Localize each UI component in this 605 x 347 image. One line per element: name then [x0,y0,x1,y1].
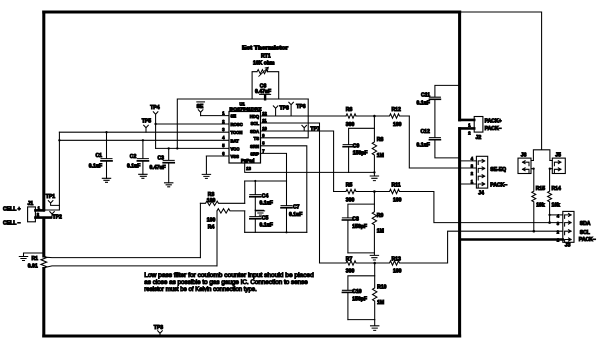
svg-text:C4: C4 [262,194,269,200]
wire pull-up feed top right [460,12,550,161]
ground SCL filter [371,320,379,331]
connector J1 [28,207,36,222]
wire PACK- thick right border lower [458,129,461,336]
svg-text:C9: C9 [353,143,360,149]
svg-text:1M: 1M [377,228,384,234]
svg-text:100: 100 [393,122,402,128]
svg-text:J6: J6 [521,152,527,158]
svg-text:as close as possible to gas ga: as close as possible to gas gauge IC. Co… [144,280,308,286]
svg-text:R7: R7 [346,257,353,263]
svg-text:C10: C10 [352,289,362,295]
capacitor C4 [250,181,261,210]
svg-text:C1: C1 [96,153,103,159]
connector J3 [563,211,574,242]
svg-text:SE-EQ: SE-EQ [490,167,506,173]
svg-text:R3: R3 [208,192,215,198]
ground below C2 [139,174,147,178]
svg-text:C2: C2 [130,154,137,160]
svg-text:J5: J5 [555,152,561,158]
svg-text:BAT: BAT [231,138,240,143]
node R14 on SDA [548,221,551,224]
capacitor C12 [429,138,459,158]
pin 1 SE [201,115,229,117]
svg-text:10k: 10k [552,202,561,208]
pin 2 ROSC [156,123,229,125]
svg-text:11: 11 [262,118,267,123]
resistor R10 [373,276,377,320]
svg-text:CELL +: CELL + [3,207,21,213]
thermistor RT1 [252,72,279,99]
resistor R13 [375,261,410,265]
node R15 on SCL [533,230,536,233]
op-amp U1 gas gauge IC [229,112,261,164]
svg-text:R10: R10 [377,284,387,290]
wire SRP pin 7 down to filter box [261,153,287,181]
ground below C3 [165,183,173,187]
svg-text:Low pass filter for coulomb co: Low pass filter for coulomb counter inpu… [144,273,313,279]
svg-text:J4: J4 [478,191,484,197]
node box corners [254,180,256,182]
wire kelvin riser R4 [216,211,218,266]
svg-text:10k: 10k [536,202,545,208]
capacitor C11 [429,85,459,137]
svg-text:HDQ: HDQ [250,114,260,119]
svg-text:PACK+: PACK+ [485,119,502,125]
svg-text:12: 12 [262,111,267,116]
svg-text:R9: R9 [377,213,384,219]
svg-text:TP5: TP5 [142,118,152,124]
svg-text:300: 300 [346,198,355,204]
wire J1 pin1 stub [35,209,43,212]
svg-text:300: 300 [346,268,355,274]
svg-text:resistor must be of Kelvin con: resistor must be of Kelvin connection ty… [144,287,257,293]
svg-text:R11: R11 [392,183,401,189]
svg-text:SCL: SCL [251,121,260,126]
wire CELL+ thick left border [42,12,45,210]
svg-text:R1: R1 [32,256,39,262]
wire CELL- thick left lower [42,218,45,256]
wire HDQ to J4 pin3 [409,116,476,168]
svg-text:300: 300 [346,122,355,128]
svg-text:SRP: SRP [250,152,259,157]
ground HDQ filter [370,172,378,180]
svg-text:0.1uF: 0.1uF [89,164,102,170]
node J6 pin2 [532,168,534,170]
wire SDA out to J3 [409,192,563,223]
ground U1 VSS [202,156,210,178]
wire J1 pin2 stub [35,216,51,219]
wire SCL filter bottom rail [348,319,375,321]
wire J2 pin1 stub PACK+ [460,119,475,122]
svg-text:R12: R12 [392,107,402,113]
svg-text:R5: R5 [346,183,353,189]
wire box left SRP leg [244,181,246,203]
svg-text:CELL −: CELL − [3,221,21,227]
svg-text:SDA: SDA [580,221,591,227]
pin 13 pad wire [245,163,349,172]
svg-text:SE: SE [231,114,237,119]
wire BAT sense riser from J1 [44,132,60,210]
svg-text:R13: R13 [392,257,402,263]
pin 5 VCC [156,147,229,149]
ground SDA filter [370,253,378,260]
node C2/p4 [142,139,144,141]
svg-text:R8: R8 [377,137,384,143]
connector J6 [518,158,531,173]
node C1/p3 [105,131,107,133]
svg-text:0.1uF: 0.1uF [127,163,140,169]
node thermnet/p5 [176,147,178,149]
svg-text:0.1uF: 0.1uF [289,212,302,218]
wire SCL pin 11 down to row3 [261,123,320,263]
node TP4/pin2 [154,123,156,125]
capacitor C2 [137,140,148,174]
svg-text:TS: TS [254,136,260,141]
wire J6 pins to rail [531,161,534,169]
capacitor C5 [250,210,261,232]
wire TS pin 9 to thermistor net [261,99,309,138]
svg-text:SRN: SRN [250,144,259,149]
svg-text:TP2: TP2 [53,214,63,220]
testpoint TP7 [302,125,307,131]
svg-text:SCL: SCL [580,230,590,236]
wire kelvin tap lower [45,266,217,268]
capacitor C8 [342,192,374,253]
wire J4 pin4 from border [460,160,477,162]
capacitor C7 [281,181,292,232]
svg-text:150pF: 150pF [352,224,367,230]
svg-text:TP6: TP6 [296,104,306,110]
svg-text:100: 100 [207,218,216,224]
svg-text:100: 100 [393,268,402,274]
ground mid filter [255,210,264,215]
resistor R6 [261,114,357,118]
svg-text:100: 100 [393,198,402,204]
svg-text:R14: R14 [552,186,562,192]
svg-text:C7: C7 [293,205,300,211]
svg-text:J1: J1 [28,201,34,207]
svg-text:PACK−: PACK− [579,237,596,243]
wire J4 pin1 from border [460,183,477,185]
wire PACK- to J3 pin1 [460,238,563,240]
svg-text:C12: C12 [421,129,431,135]
wire box left SRN leg [244,211,246,232]
testpoint TP8 [273,106,278,116]
svg-text:R15: R15 [536,186,546,192]
testpoint TP6 [289,102,294,116]
svg-text:SDA: SDA [250,129,259,134]
wire kelvin riser R3 [199,203,201,257]
svg-text:TP1: TP1 [46,194,56,200]
resistor R3 [200,201,244,205]
svg-text:C8: C8 [352,216,359,222]
svg-text:VSS: VSS [231,154,240,159]
svg-text:R6: R6 [346,107,353,113]
svg-text:TP4: TP4 [150,105,160,111]
pin 6 VSS [206,155,229,157]
ground near R1 [19,253,44,261]
wire PACK- thick bottom border [44,334,460,337]
svg-text:0.1uF: 0.1uF [417,101,430,107]
resistor R5 [334,189,375,193]
svg-text:RT1: RT1 [261,53,271,59]
resistor R15 [532,169,536,232]
svg-text:SE: SE [197,104,204,110]
wire row to U1 pin 4 [59,139,229,141]
resistor R4 [217,209,245,213]
connector J2 [474,117,483,133]
wire filter bottom rail [349,171,375,173]
svg-text:TCON: TCON [231,130,243,135]
ground below C1 [102,178,110,182]
svg-text:PACK−: PACK− [485,126,502,132]
svg-text:R4: R4 [208,225,215,231]
svg-text:13: 13 [246,166,251,171]
wire R6 to node [356,115,374,117]
wire J5 pins to rail [550,161,553,169]
wire box SRN bottom edge [245,231,307,233]
svg-text:0.01: 0.01 [28,264,38,270]
node riser/p4 [58,139,60,141]
capacitor C1 [101,132,112,178]
wire coulomb filter box SRP top edge [245,180,287,182]
svg-text:TP7: TP7 [310,127,320,133]
wire PACK+ thick top border [44,10,460,13]
wire thermistor net [177,99,308,148]
connector J4 [476,156,487,188]
svg-text:BQ27541DRZ: BQ27541DRZ [230,106,262,111]
resistor R8 [372,128,376,172]
resistor R7 [320,261,375,265]
node J5 pin2 [549,168,551,170]
resistor R1 sense [41,256,47,269]
svg-text:0.1uF: 0.1uF [260,223,273,229]
wire kelvin tap upper [45,256,200,258]
svg-text:J3: J3 [565,242,571,248]
resistor R11 [374,189,409,193]
testpoint SE stub [198,110,203,116]
svg-text:Ect Thermistor: Ect Thermistor [242,46,288,52]
svg-text:150pF: 150pF [353,151,368,157]
svg-text:PACK−: PACK− [490,183,507,189]
svg-text:0.47uF: 0.47uF [150,165,166,171]
connector J5 [552,158,565,173]
wire SCL out to J3 [409,231,563,263]
node HDQ filter [373,115,376,118]
resistor R9 [372,204,376,253]
node J1 pin1 [43,209,46,212]
svg-text:C3: C3 [158,155,165,161]
svg-text:0.1uF: 0.1uF [417,143,430,149]
node C3/p5 [168,147,170,149]
svg-text:C11: C11 [421,93,430,99]
svg-text:TP3: TP3 [154,325,164,331]
node SDA filter [373,190,376,193]
svg-text:0.1uF: 0.1uF [260,201,273,207]
resistor R14 [548,169,552,223]
svg-text:VCC: VCC [231,146,240,151]
capacitor C3 [163,148,174,182]
svg-text:150pF: 150pF [352,297,367,303]
node SCL filter [373,262,376,265]
svg-text:J2: J2 [476,135,482,141]
svg-text:10K ohm: 10K ohm [253,61,275,67]
wire J2 pin2 stub PACK- [460,127,475,130]
J4 arrows [478,159,485,164]
wire SRN pin 8 down to filter box [261,146,307,233]
svg-text:ROSC: ROSC [231,122,243,127]
resistor R12 [374,114,409,118]
svg-text:PuPad: PuPad [241,158,255,163]
wire SDA pin 10 down to row2 [261,131,334,192]
capacitor C10 [342,263,374,320]
capacitor C9 [343,116,374,172]
wire row to U1 pin 3 [59,131,229,133]
svg-text:10: 10 [262,126,267,131]
svg-text:100: 100 [207,198,216,204]
svg-text:1M: 1M [377,153,384,159]
svg-text:1M: 1M [377,300,384,306]
wire PACK+ thick right border upper [458,12,461,120]
wire SDA filter bottom rail [348,252,375,254]
svg-text:C5: C5 [262,216,269,222]
svg-text:TP8: TP8 [280,106,290,112]
wire J3 pin4 hook [550,214,563,216]
